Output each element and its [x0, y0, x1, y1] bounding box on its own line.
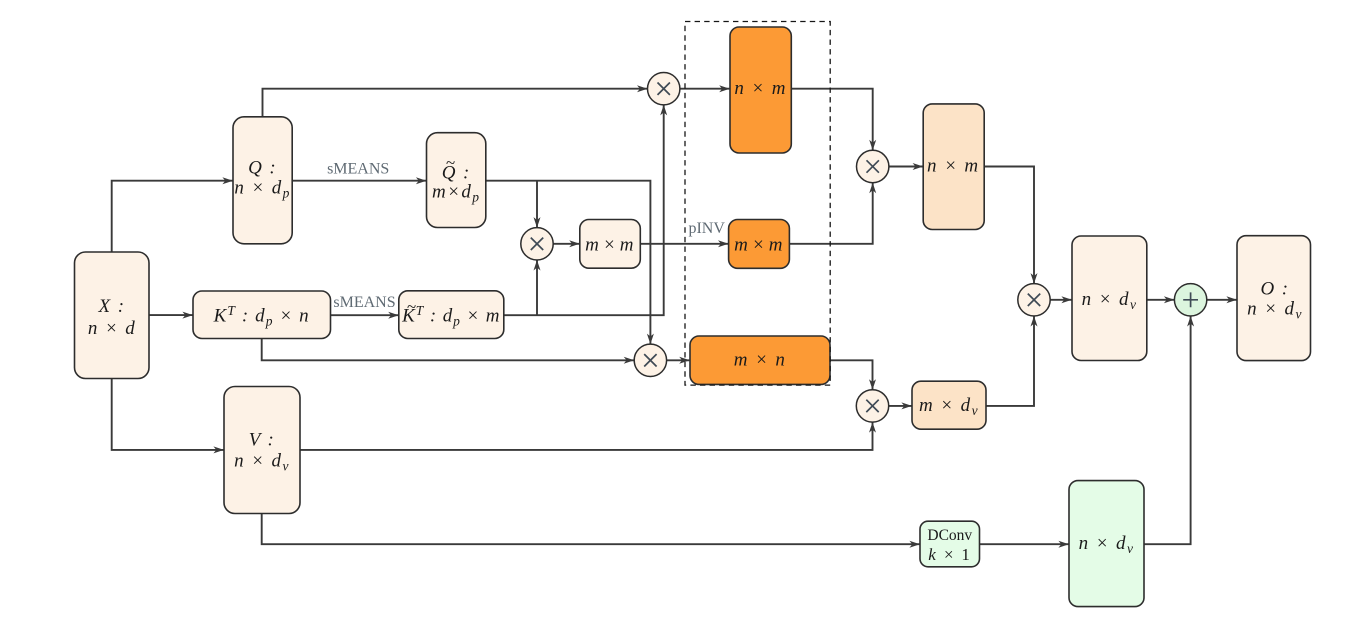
- svg-text:n × m: n × m: [734, 78, 787, 99]
- svg-text:X :: X :: [98, 296, 126, 317]
- svg-text:KT : dp × n: KT : dp × n: [213, 303, 310, 329]
- wire Q sMEANS to Qt: [292, 180, 426, 182]
- times5 circle: [856, 390, 888, 422]
- wire times4 to nm peach: [889, 166, 923, 168]
- times6 circle: [1018, 284, 1050, 316]
- wire Q up to times1: [263, 89, 648, 117]
- wire times3 to mn orange: [667, 359, 690, 361]
- wire X up to Q: [112, 181, 233, 252]
- svg-text:n × dp: n × dp: [234, 178, 290, 201]
- times4 circle: [857, 150, 889, 182]
- block O: [1237, 236, 1311, 361]
- svg-text:k × 1: k × 1: [928, 545, 971, 564]
- wire times6 to ndv cream: [1050, 299, 1071, 301]
- block nm peach: [923, 104, 984, 230]
- svg-text:n × dv: n × dv: [1082, 289, 1138, 312]
- wire mm cream pINV to mm orange: [640, 243, 728, 245]
- wire V right up to times5: [300, 422, 872, 450]
- svg-text:Q :: Q :: [248, 158, 277, 179]
- svg-text:Q :: Q :: [442, 163, 471, 184]
- block ndv cream: [1072, 236, 1147, 361]
- wire V down right to DConv: [262, 514, 920, 545]
- block mm orange: [729, 220, 790, 269]
- block V: [224, 387, 300, 514]
- block mn orange wide: [690, 336, 830, 384]
- wire X right to KT: [149, 314, 192, 316]
- svg-text:m × n: m × n: [734, 349, 787, 370]
- plus circle: [1174, 284, 1206, 316]
- svg-text:n × dv: n × dv: [1079, 533, 1135, 556]
- svg-text:n × dv: n × dv: [1247, 299, 1303, 322]
- wire times5 to mdv peach: [889, 405, 912, 407]
- wire mm orange right up to times4: [789, 183, 872, 244]
- svg-text:sMEANS: sMEANS: [327, 160, 389, 177]
- wire X down to V: [112, 379, 224, 450]
- wire branch Qt down to times2: [536, 181, 538, 228]
- wire plus to O: [1207, 299, 1237, 301]
- svg-text:n × dv: n × dv: [234, 450, 290, 473]
- block KT: [193, 291, 331, 339]
- svg-text:O :: O :: [1261, 278, 1290, 299]
- wire KT down right to times3: [262, 339, 634, 361]
- wire mdv peach right up to times6: [986, 316, 1034, 406]
- wire DConv to ndv green: [980, 543, 1069, 545]
- block Qtilde: [427, 133, 486, 228]
- block Q: [233, 117, 292, 244]
- wire nm peach right down to times6: [985, 167, 1034, 284]
- block mm cream: [580, 220, 641, 269]
- times2 circle: [521, 228, 553, 260]
- svg-text:m × dv: m × dv: [919, 395, 979, 418]
- svg-text:pINV: pINV: [688, 220, 725, 237]
- block DConv: [920, 521, 980, 567]
- svg-text:m×m: m×m: [734, 235, 784, 256]
- wire times2 to mm cream: [553, 243, 579, 245]
- block ndv green: [1069, 481, 1144, 607]
- block mdv peach: [912, 381, 986, 429]
- wire ndv cream to plus: [1147, 299, 1175, 301]
- wire ndv green right up to plus: [1144, 316, 1190, 544]
- wire times1 to nm orange: [680, 88, 730, 90]
- svg-text:n × m: n × m: [927, 156, 980, 177]
- block nm orange tall: [730, 27, 791, 153]
- wire branch Kt up to times2: [536, 260, 538, 315]
- svg-text:DConv: DConv: [927, 527, 972, 544]
- wire mn orange right down to times5: [830, 360, 873, 389]
- times3 circle: [634, 344, 666, 376]
- svg-text:n × d: n × d: [88, 318, 136, 339]
- dashed selection rectangle: [685, 22, 830, 386]
- wire Kt right up to times1: [504, 105, 664, 315]
- times1 circle: [648, 73, 680, 105]
- svg-text:m×m: m×m: [585, 235, 635, 256]
- wire nm orange right down to times4: [791, 89, 872, 150]
- wire Qt right down to times3: [486, 181, 651, 344]
- wire KT sMEANS to Kt: [331, 314, 399, 316]
- svg-text:sMEANS: sMEANS: [333, 294, 395, 311]
- block X: [75, 252, 150, 379]
- svg-text:V :: V :: [249, 430, 276, 451]
- block Ktilde: [399, 291, 504, 339]
